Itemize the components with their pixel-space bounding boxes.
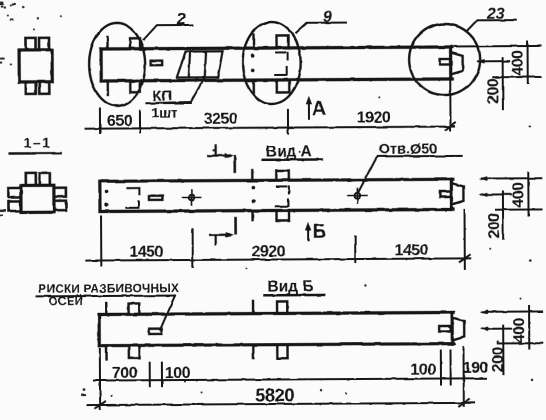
dimension row top view 650/3250/1920 (85, 79, 455, 135)
leader 9 (296, 23, 346, 33)
svg-text:3250: 3250 (204, 111, 238, 128)
svg-text:1450: 1450 (394, 242, 428, 259)
svg-text:КП: КП (152, 88, 172, 105)
top stubs (26, 173, 36, 186)
section cut mark bottom (middle view) (210, 218, 236, 245)
section end view (upper-left): column cross-section (19, 38, 52, 94)
end hook detail (bottom view) (452, 317, 464, 340)
left stubs (8, 188, 21, 198)
contents of ellipse 9: ticks, dots, dashed plate, stirrups (251, 34, 290, 93)
hole 1 (middle view) (182, 190, 200, 205)
svg-text:2920: 2920 (251, 243, 285, 260)
right side 400/200 dims (middle view) (479, 172, 542, 238)
section 1-1 label (10, 134, 61, 153)
dimension row2 bottom view 5820 overall (87, 399, 474, 408)
leader to axis mark (160, 296, 175, 330)
top rebar stub pair (26, 38, 36, 50)
view direction arrow A (306, 96, 327, 121)
svg-text:1450: 1450 (129, 244, 163, 261)
right side 400/200 dims (top view) (455, 41, 541, 109)
bottom rebar stub pair (26, 82, 36, 94)
right stubs (54, 188, 66, 197)
svg-text:700: 700 (112, 365, 138, 382)
svg-text:2: 2 (176, 11, 186, 28)
end mark plate (bottom view) (439, 326, 451, 332)
svg-text:100: 100 (410, 362, 436, 379)
end hook detail (middle view) (451, 183, 463, 205)
section 1-1 view: column cross-section with side stubs (8, 173, 66, 213)
callout circle 23 (409, 24, 480, 95)
left rebar ticks (bottom view) (105, 303, 108, 359)
svg-text:200: 200 (486, 212, 503, 238)
leader 23 (466, 20, 516, 31)
svg-text:100: 100 (165, 365, 191, 382)
beam outline top view (101, 47, 452, 81)
svg-text:5820: 5820 (255, 384, 294, 405)
hole 2 (middle view) (348, 188, 368, 203)
svg-text:400: 400 (511, 317, 528, 343)
svg-text:200: 200 (490, 346, 507, 372)
end hook detail right (top view) (451, 52, 463, 74)
svg-text:23: 23 (486, 6, 505, 23)
svg-text:9: 9 (323, 9, 332, 26)
svg-text:Вид А: Вид А (266, 143, 312, 160)
KP embedded plate (parallelogram) (177, 51, 223, 77)
leader 2 (143, 25, 193, 40)
right side 400/200 dims (bottom view) (480, 306, 543, 374)
left stirrups (bottom view) (129, 303, 140, 314)
middle cluster (middle view): ticks, stirrups, dots, dashed plate (251, 170, 289, 221)
left rebar stubs (top view) (106, 37, 109, 95)
dashed hidden stirrup left (middle view) (126, 188, 139, 208)
callout ellipse 2 (89, 23, 145, 106)
left dots (middle view) (105, 190, 109, 207)
callout ellipse 9 (242, 22, 300, 104)
svg-text:А: А (312, 98, 327, 120)
svg-text:400: 400 (510, 50, 527, 76)
svg-text:400: 400 (511, 182, 528, 208)
svg-text:1920: 1920 (357, 109, 391, 126)
svg-text:1шт: 1шт (151, 105, 178, 121)
svg-text:1–1: 1–1 (24, 134, 52, 150)
svg-text:190: 190 (463, 360, 489, 377)
axis mark plate (middle view) (149, 196, 163, 200)
KP leader and label (146, 78, 204, 103)
end mark plate (middle view) (440, 191, 451, 197)
svg-text:Б: Б (313, 222, 327, 243)
end mark plate (top view) (440, 59, 450, 65)
svg-text:Вид Б: Вид Б (267, 278, 313, 295)
dimension row1 bottom view 700/100 .. 100/190 (94, 347, 486, 409)
middle cluster (bottom view) (253, 301, 288, 359)
dimension row middle view 1450/2920/1450 (86, 210, 470, 271)
small plate inside beam (top view) (151, 61, 163, 66)
beam outline bottom view (99, 312, 454, 345)
svg-text:200: 200 (485, 78, 502, 104)
beam outline middle view (100, 179, 453, 211)
svg-text:650: 650 (107, 113, 133, 130)
axis mark plate (bottom view) (149, 329, 162, 334)
section cut mark top (middle view) (208, 145, 235, 172)
left stirrups (top view) (130, 38, 140, 49)
view direction arrow B (305, 222, 326, 243)
